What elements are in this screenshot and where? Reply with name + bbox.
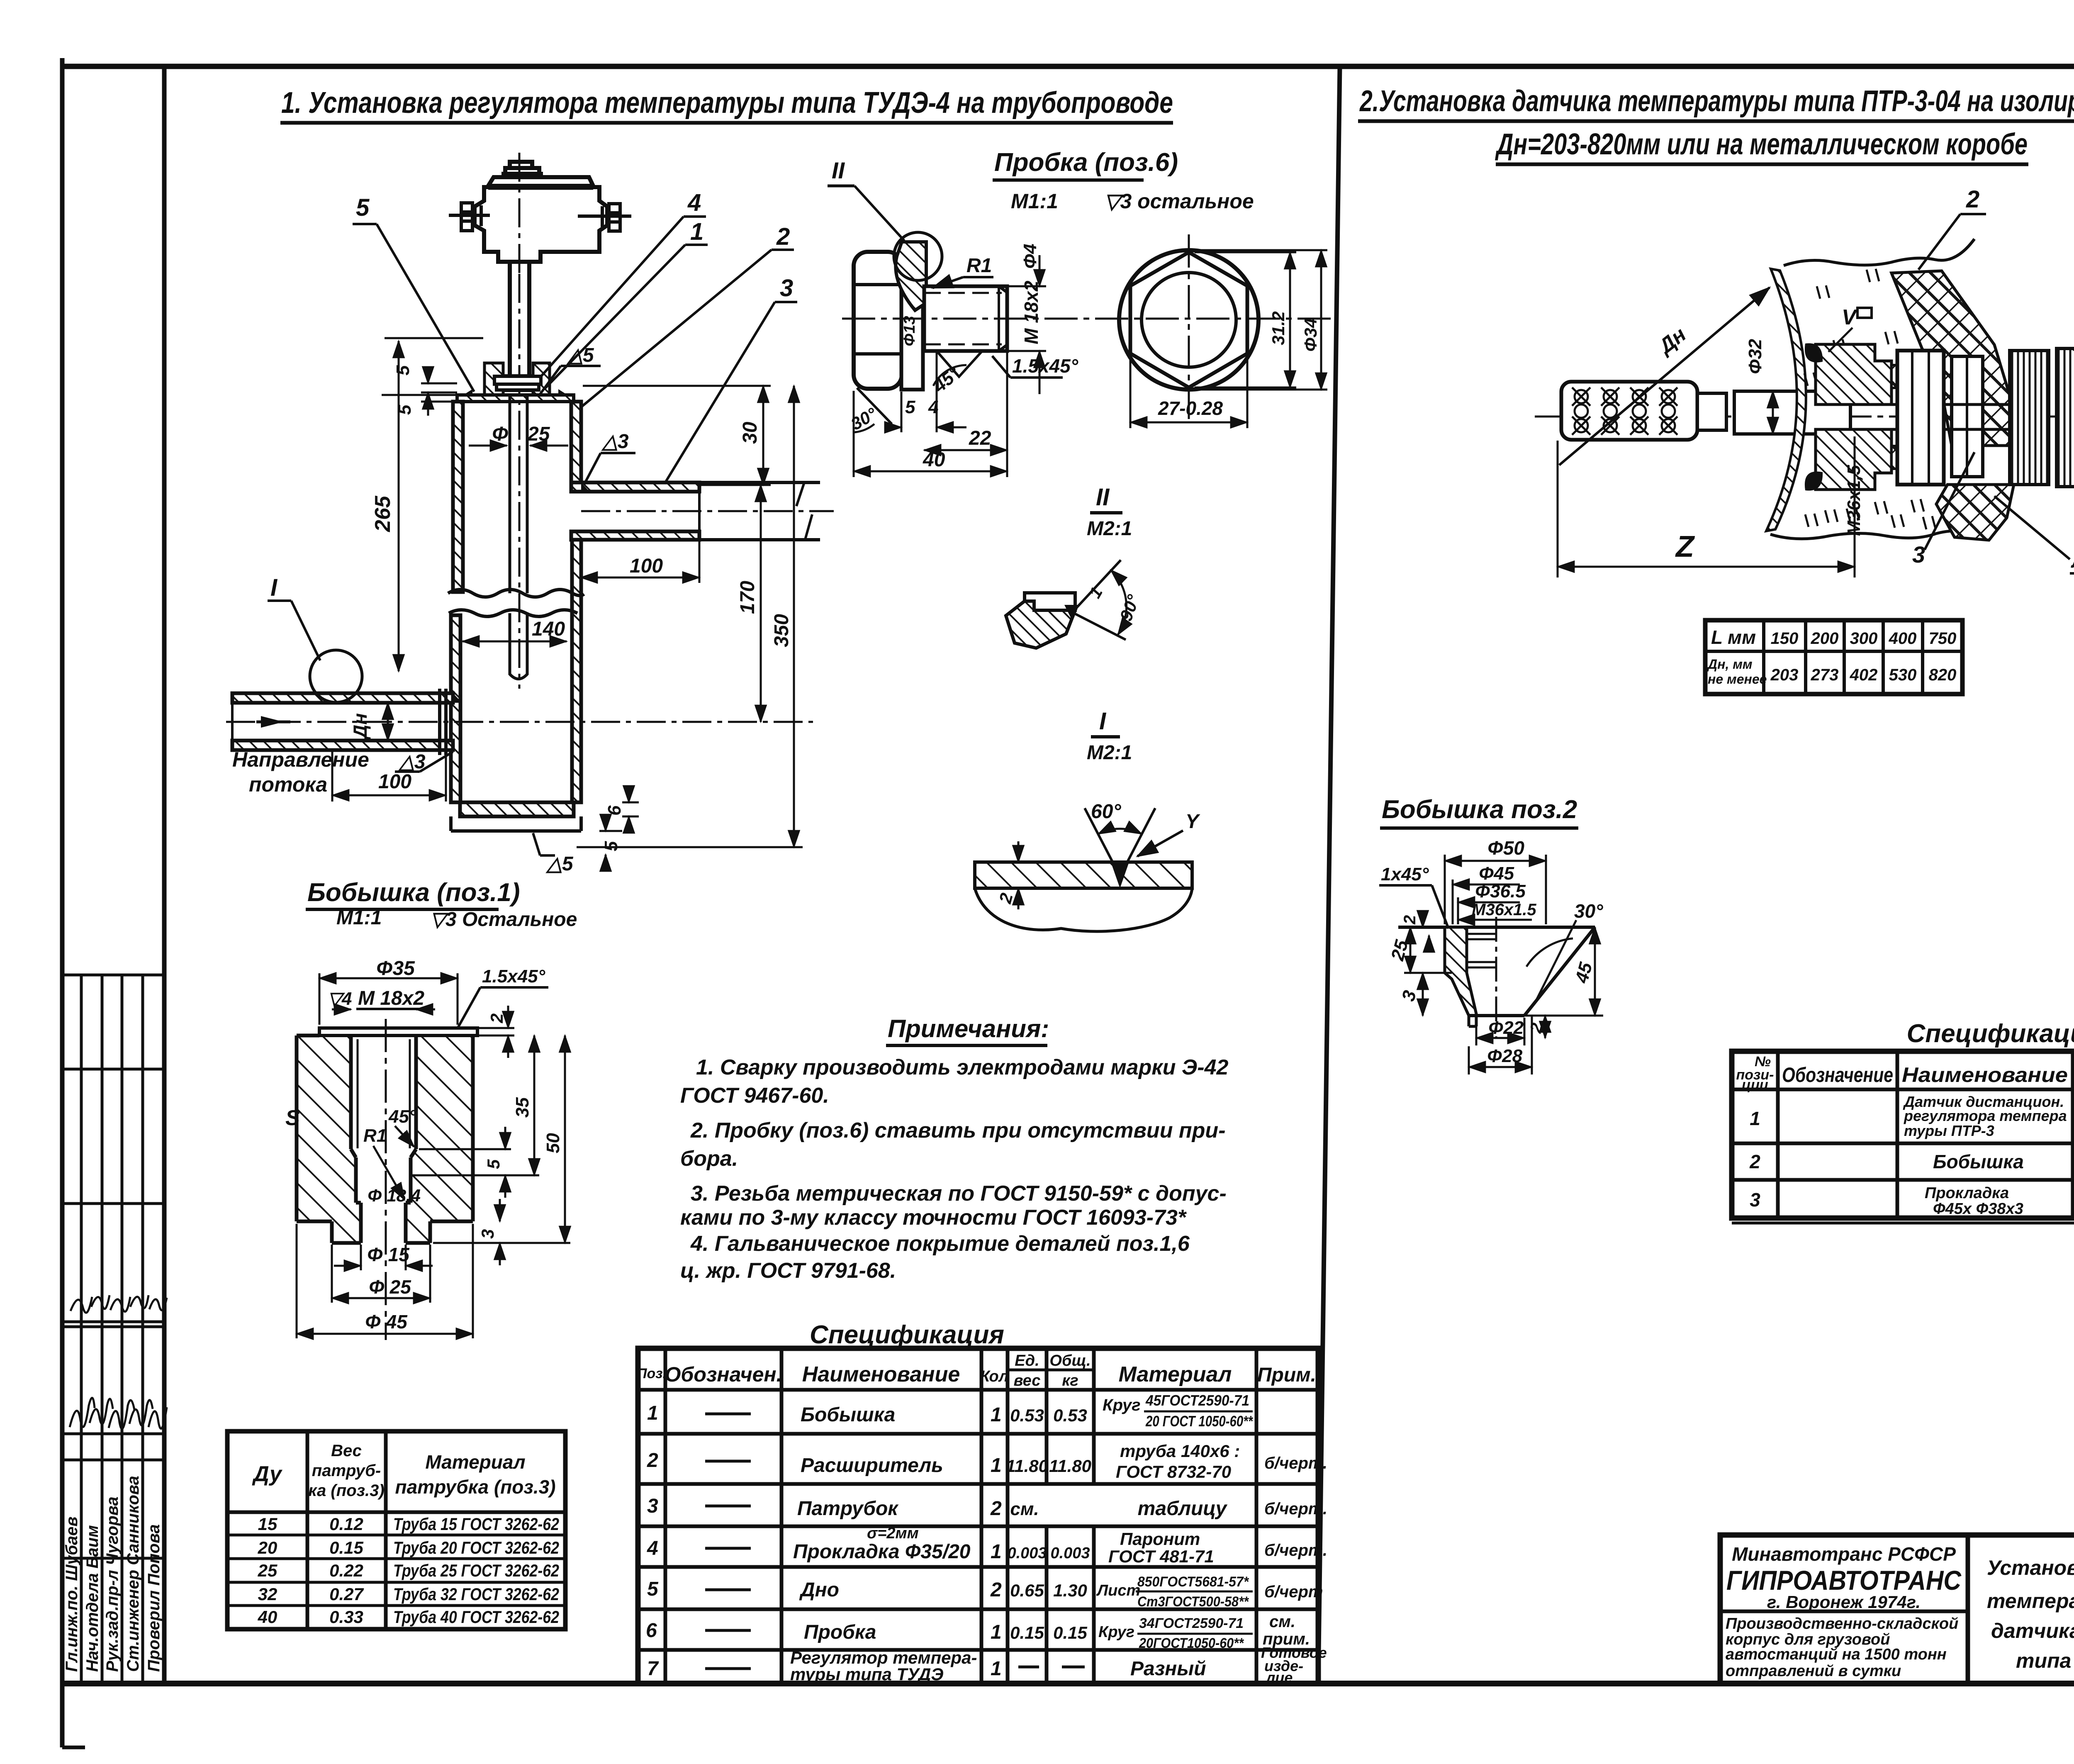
svg-text:Паронит: Паронит — [1120, 1529, 1200, 1549]
svg-text:2: 2 — [990, 1579, 1002, 1601]
svg-text:45°: 45° — [388, 1106, 416, 1127]
svg-text:Ст3ГОСТ500-58**: Ст3ГОСТ500-58** — [1137, 1594, 1249, 1610]
svg-text:0.003: 0.003 — [1050, 1545, 1090, 1562]
svg-text:туры ПТР-3: туры ПТР-3 — [1904, 1122, 1994, 1139]
svg-text:1: 1 — [647, 1402, 658, 1424]
svg-text:ка (поз.3): ка (поз.3) — [308, 1481, 384, 1500]
svg-text:5: 5 — [356, 194, 370, 221]
svg-text:см.: см. — [1269, 1613, 1295, 1631]
svg-text:0.15: 0.15 — [1010, 1623, 1044, 1642]
svg-text:Поз.: Поз. — [637, 1366, 667, 1381]
svg-text:типа ПТР-3-04: типа ПТР-3-04 — [2016, 1649, 2074, 1672]
svg-text:2: 2 — [990, 1498, 1002, 1520]
svg-text:Φ: Φ — [492, 423, 508, 445]
svg-text:0.53: 0.53 — [1010, 1406, 1044, 1425]
svg-text:Обозначен.: Обозначен. — [665, 1363, 782, 1386]
svg-text:ГОСТ 9467-60.: ГОСТ 9467-60. — [680, 1084, 829, 1108]
svg-text:5: 5 — [484, 1159, 503, 1169]
svg-text:203: 203 — [1770, 666, 1799, 684]
svg-text:0.33: 0.33 — [329, 1607, 363, 1627]
svg-text:Ду: Ду — [252, 1462, 283, 1486]
svg-text:Спецификация: Спецификация — [810, 1321, 1004, 1349]
svg-text:М2:1: М2:1 — [1087, 742, 1132, 764]
svg-text:400: 400 — [1889, 629, 1917, 648]
svg-text:Ед.: Ед. — [1015, 1352, 1039, 1369]
svg-text:II: II — [832, 157, 845, 183]
svg-text:200: 200 — [1811, 629, 1839, 648]
svg-text:140: 140 — [532, 618, 565, 640]
svg-text:750: 750 — [1929, 629, 1957, 648]
svg-text:0.003: 0.003 — [1007, 1545, 1047, 1562]
svg-text:1.5х45°: 1.5х45° — [482, 966, 545, 987]
svg-text:1: 1 — [991, 1541, 1002, 1563]
svg-text:1: 1 — [991, 1621, 1002, 1643]
svg-text:60°: 60° — [1091, 801, 1121, 823]
svg-text:б/черт.: б/черт. — [1264, 1541, 1327, 1559]
svg-text:22: 22 — [969, 427, 991, 449]
svg-text:3: 3 — [478, 1229, 497, 1239]
svg-text:Наименование: Наименование — [802, 1362, 960, 1386]
svg-text:3: 3 — [1750, 1189, 1760, 1211]
svg-text:Вес: Вес — [331, 1442, 362, 1460]
svg-text:Прокладка: Прокладка — [1925, 1184, 2009, 1202]
svg-text:3: 3 — [1912, 541, 1925, 568]
svg-text:Φ 25: Φ 25 — [369, 1276, 411, 1298]
svg-text:△3: △3 — [398, 751, 426, 773]
svg-text:5: 5 — [647, 1578, 659, 1600]
svg-text:Дно: Дно — [799, 1579, 839, 1601]
svg-text:20 ГОСТ 1050-60**: 20 ГОСТ 1050-60** — [1145, 1413, 1253, 1430]
svg-text:1х45°: 1х45° — [1381, 864, 1429, 884]
svg-text:15: 15 — [258, 1514, 278, 1534]
svg-text:вес: вес — [1014, 1372, 1041, 1389]
svg-text:туры типа ТУДЭ: туры типа ТУДЭ — [790, 1664, 944, 1684]
svg-text:Круг: Круг — [1103, 1396, 1141, 1414]
svg-text:Φ34: Φ34 — [1301, 318, 1320, 352]
svg-text:температуры ТУДЭ-4 и: температуры ТУДЭ-4 и — [1987, 1589, 2074, 1613]
svg-text:11.80: 11.80 — [1049, 1456, 1091, 1476]
svg-text:△5: △5 — [566, 344, 594, 366]
svg-text:1: 1 — [1750, 1108, 1760, 1129]
svg-text:▽3 остальное: ▽3 остальное — [1104, 190, 1254, 213]
svg-text:2: 2 — [487, 1014, 506, 1023]
svg-text:Φ13: Φ13 — [901, 316, 918, 346]
svg-text:Расширитель: Расширитель — [801, 1455, 943, 1476]
svg-text:2: 2 — [1966, 186, 1979, 213]
svg-text:Бобышка: Бобышка — [801, 1404, 895, 1426]
svg-text:патрубка (поз.3): патрубка (поз.3) — [395, 1476, 555, 1498]
svg-text:4: 4 — [928, 397, 938, 417]
svg-text:2. Пробку (поз.6) ставить п: 2. Пробку (поз.6) ставить при отсутствии… — [690, 1118, 1226, 1143]
svg-text:б/черт: б/черт — [1264, 1583, 1323, 1601]
svg-text:М 18х2: М 18х2 — [1020, 280, 1042, 344]
svg-text:Труба 40 ГОСТ 3262-62: Труба 40 ГОСТ 3262-62 — [393, 1607, 559, 1627]
svg-text:34ГОСТ2590-71: 34ГОСТ2590-71 — [1139, 1615, 1244, 1631]
svg-text:300: 300 — [1850, 629, 1878, 648]
svg-text:▽4: ▽4 — [328, 989, 352, 1009]
svg-text:Φ50: Φ50 — [1487, 837, 1524, 859]
svg-text:1. Сварку производить электр: 1. Сварку производить электродами марки … — [696, 1055, 1229, 1079]
svg-text:32: 32 — [258, 1584, 278, 1604]
svg-text:2.Установка датчика температур: 2.Установка датчика температуры типа ПТР… — [1359, 85, 2074, 118]
svg-text:Φ 15: Φ 15 — [367, 1244, 410, 1265]
svg-text:30°: 30° — [1574, 900, 1603, 922]
svg-text:11.80: 11.80 — [1006, 1456, 1048, 1476]
svg-text:Лист: Лист — [1096, 1582, 1140, 1599]
svg-text:Пробка: Пробка — [804, 1621, 876, 1643]
svg-text:0.53: 0.53 — [1053, 1406, 1087, 1425]
svg-text:Проверил Попова: Проверил Попова — [145, 1524, 163, 1672]
svg-text:г. Воронеж 1974г.: г. Воронеж 1974г. — [1767, 1592, 1921, 1612]
svg-text:0.65: 0.65 — [1010, 1581, 1044, 1600]
svg-text:170: 170 — [737, 581, 759, 614]
svg-text:1.30: 1.30 — [1053, 1581, 1087, 1600]
svg-text:25: 25 — [258, 1561, 278, 1580]
svg-text:4. Гальваническое покрытие: 4. Гальваническое покрытие деталей поз.1… — [690, 1232, 1190, 1256]
svg-text:1. Установка регулятора темпер: 1. Установка регулятора температуры типа… — [281, 86, 1173, 119]
svg-text:М 18х2: М 18х2 — [358, 987, 424, 1009]
svg-text:R1: R1 — [363, 1126, 387, 1146]
svg-text:б/черт.: б/черт. — [1264, 1500, 1327, 1518]
svg-text:1: 1 — [991, 1658, 1002, 1680]
svg-text:Спецификация: Спецификация — [1907, 1019, 2074, 1048]
svg-text:Прим.: Прим. — [1257, 1364, 1316, 1386]
svg-text:бора.: бора. — [680, 1147, 738, 1171]
svg-text:регулятора темпера: регулятора темпера — [1904, 1107, 2067, 1124]
svg-text:5: 5 — [393, 365, 413, 375]
svg-text:патруб-: патруб- — [312, 1462, 381, 1480]
svg-text:273: 273 — [1811, 666, 1839, 684]
svg-text:Нач.отдела Баим: Нач.отдела Баим — [83, 1525, 102, 1672]
svg-text:Бобышка: Бобышка — [1933, 1151, 2024, 1172]
svg-text:Гл.инж.по. Шубаев: Гл.инж.по. Шубаев — [63, 1516, 81, 1672]
svg-text:2: 2 — [776, 223, 790, 250]
svg-text:35: 35 — [512, 1097, 533, 1118]
svg-text:0.15: 0.15 — [1053, 1623, 1087, 1642]
svg-text:Φ32: Φ32 — [1745, 339, 1765, 374]
svg-text:Патрубок: Патрубок — [797, 1498, 899, 1520]
svg-text:1.5х45°: 1.5х45° — [1012, 355, 1078, 377]
svg-text:Производственно-складской: Производственно-складской — [1726, 1615, 1958, 1632]
svg-text:Труба 32 ГОСТ 3262-62: Труба 32 ГОСТ 3262-62 — [393, 1584, 559, 1604]
svg-text:II: II — [1096, 484, 1110, 511]
svg-text:5: 5 — [601, 841, 621, 851]
svg-text:0.12: 0.12 — [329, 1514, 363, 1534]
svg-text:R1: R1 — [966, 255, 992, 277]
svg-text:△5: △5 — [545, 853, 574, 875]
svg-text:1: 1 — [991, 1404, 1002, 1426]
svg-text:L мм: L мм — [1711, 626, 1756, 648]
svg-text:S: S — [285, 1106, 300, 1130]
svg-text:20: 20 — [258, 1538, 278, 1557]
svg-text:40: 40 — [258, 1607, 278, 1627]
svg-text:27-0.28: 27-0.28 — [1158, 397, 1223, 419]
svg-text:7: 7 — [647, 1658, 659, 1680]
svg-text:не менее: не менее — [1708, 672, 1767, 687]
svg-text:Направление: Направление — [232, 748, 369, 771]
svg-text:Труба 25 ГОСТ 3262-62: Труба 25 ГОСТ 3262-62 — [393, 1561, 559, 1580]
svg-text:труба 140х6 :: труба 140х6 : — [1120, 1441, 1240, 1461]
svg-text:М1:1: М1:1 — [336, 907, 382, 929]
svg-text:М1:1: М1:1 — [1011, 190, 1058, 213]
svg-text:ц. жр. ГОСТ 9791-68.: ц. жр. ГОСТ 9791-68. — [680, 1259, 896, 1283]
svg-text:▽3 Остальное: ▽3 Остальное — [430, 909, 577, 931]
svg-text:Φ45: Φ45 — [1479, 863, 1514, 884]
svg-text:100: 100 — [630, 555, 663, 577]
svg-text:ГОСТ 8732-70: ГОСТ 8732-70 — [1116, 1462, 1231, 1481]
svg-text:I: I — [1099, 708, 1107, 735]
svg-text:Φ4: Φ4 — [1020, 244, 1040, 269]
svg-text:20ГОСТ1050-60**: 20ГОСТ1050-60** — [1139, 1635, 1244, 1651]
svg-text:150: 150 — [1771, 629, 1799, 648]
svg-text:Дн, мм: Дн, мм — [1706, 657, 1753, 672]
svg-text:таблицу: таблицу — [1138, 1498, 1228, 1520]
svg-text:850ГОСТ5681-57*: 850ГОСТ5681-57* — [1137, 1574, 1249, 1590]
svg-text:Общ.: Общ. — [1049, 1352, 1091, 1369]
svg-text:4: 4 — [687, 189, 701, 216]
svg-text:Труба 15 ГОСТ 3262-62: Труба 15 ГОСТ 3262-62 — [393, 1514, 559, 1534]
svg-text:Φ28: Φ28 — [1487, 1046, 1523, 1066]
svg-text:Z: Z — [1675, 530, 1695, 563]
svg-text:ции: ции — [1742, 1077, 1768, 1093]
svg-text:Кол: Кол — [980, 1368, 1009, 1385]
svg-text:Φ22: Φ22 — [1488, 1018, 1524, 1038]
svg-text:2: 2 — [1401, 915, 1419, 925]
svg-text:Материал: Материал — [1119, 1362, 1232, 1386]
svg-text:Φ 45: Φ 45 — [365, 1311, 408, 1333]
svg-text:Наименование: Наименование — [1902, 1063, 2068, 1087]
svg-text:45ГОСТ2590-71: 45ГОСТ2590-71 — [1145, 1392, 1249, 1409]
svg-text:30: 30 — [739, 422, 761, 444]
svg-text:Прокладка Ф35/20: Прокладка Ф35/20 — [793, 1541, 971, 1563]
svg-text:Φ36.5: Φ36.5 — [1475, 881, 1526, 901]
svg-text:б/черт.: б/черт. — [1264, 1454, 1327, 1472]
svg-text:0.22: 0.22 — [329, 1561, 363, 1580]
svg-text:ГОСТ 481-71: ГОСТ 481-71 — [1108, 1547, 1214, 1566]
svg-text:кг: кг — [1062, 1372, 1078, 1389]
svg-text:Бобышка (поз.1): Бобышка (поз.1) — [307, 878, 520, 907]
svg-text:Y: Y — [1185, 811, 1200, 833]
svg-text:Круг: Круг — [1098, 1623, 1134, 1641]
svg-text:Ф45х Ф38х3: Ф45х Ф38х3 — [1933, 1200, 2023, 1218]
svg-text:40: 40 — [923, 449, 945, 471]
svg-text:5: 5 — [905, 397, 915, 417]
svg-text:отправлений в сутки: отправлений в сутки — [1726, 1662, 1901, 1680]
svg-text:2: 2 — [1749, 1151, 1760, 1172]
svg-text:Ст.инженер Санникова: Ст.инженер Санникова — [124, 1476, 142, 1672]
svg-text:I: I — [270, 574, 278, 601]
svg-text:ГИПРОАВТОТРАНС: ГИПРОАВТОТРАНС — [1726, 1565, 1962, 1596]
svg-text:3. Резьба метрическая по ГО: 3. Резьба метрическая по ГОСТ 9150-59* с… — [691, 1182, 1227, 1206]
svg-text:Φ35: Φ35 — [376, 958, 415, 979]
svg-text:0.15: 0.15 — [329, 1538, 363, 1557]
svg-text:△3: △3 — [601, 431, 629, 453]
svg-text:ками по 3-му классу точнос: ками по 3-му классу точности ГОСТ 16093-… — [680, 1206, 1187, 1230]
svg-text:Разный: Разный — [1130, 1658, 1206, 1680]
svg-text:Рук.зад.пр-л Чугорва: Рук.зад.пр-л Чугорва — [103, 1496, 122, 1672]
svg-text:см.: см. — [1010, 1499, 1039, 1519]
svg-text:2: 2 — [647, 1450, 658, 1472]
svg-text:датчика температуры: датчика температуры — [1991, 1619, 2074, 1642]
svg-text:350: 350 — [771, 614, 793, 647]
svg-text:Материал: Материал — [425, 1451, 525, 1473]
svg-text:потока: потока — [249, 773, 327, 796]
svg-text:6: 6 — [604, 805, 625, 816]
svg-text:Обозначение: Обозначение — [1782, 1063, 1893, 1087]
svg-text:Φ 18.4: Φ 18.4 — [368, 1186, 421, 1205]
svg-text:5: 5 — [394, 404, 415, 415]
svg-text:31.2: 31.2 — [1268, 311, 1288, 345]
svg-text:100: 100 — [378, 771, 411, 793]
svg-text:σ=2мм: σ=2мм — [867, 1525, 919, 1542]
svg-text:Примечания:: Примечания: — [888, 1015, 1049, 1043]
svg-text:Дн: Дн — [349, 713, 371, 740]
svg-text:Бобышка поз.2: Бобышка поз.2 — [1382, 795, 1577, 824]
svg-text:Труба 20 ГОСТ 3262-62: Труба 20 ГОСТ 3262-62 — [393, 1538, 559, 1557]
svg-text:лие: лие — [1265, 1669, 1293, 1686]
svg-text:3: 3 — [780, 275, 793, 302]
svg-text:3: 3 — [647, 1495, 658, 1517]
svg-text:0.27: 0.27 — [329, 1584, 364, 1604]
svg-text:Установка регулятора: Установка регулятора — [1987, 1556, 2074, 1579]
svg-text:Минавтотранс РСФСР: Минавтотранс РСФСР — [1732, 1543, 1956, 1565]
svg-text:М36х1.5: М36х1.5 — [1472, 901, 1536, 919]
svg-text:М2:1: М2:1 — [1087, 518, 1132, 540]
svg-text:V: V — [1842, 305, 1858, 329]
svg-text:530: 530 — [1889, 666, 1917, 684]
svg-text:4: 4 — [647, 1537, 658, 1559]
svg-text:820: 820 — [1929, 666, 1957, 684]
svg-text:50: 50 — [543, 1133, 563, 1153]
svg-text:1: 1 — [690, 218, 704, 245]
svg-text:Дн=203-820мм или на металличес: Дн=203-820мм или на металлическом коробе — [1495, 128, 2028, 161]
svg-text:25: 25 — [527, 423, 550, 445]
svg-text:Пробка (поз.6): Пробка (поз.6) — [994, 148, 1178, 177]
svg-text:402: 402 — [1850, 666, 1878, 684]
svg-text:автостанций на 1500 тонн: автостанций на 1500 тонн — [1726, 1646, 1947, 1663]
svg-text:6: 6 — [646, 1620, 657, 1642]
svg-text:265: 265 — [371, 495, 395, 532]
svg-text:1: 1 — [991, 1455, 1002, 1476]
